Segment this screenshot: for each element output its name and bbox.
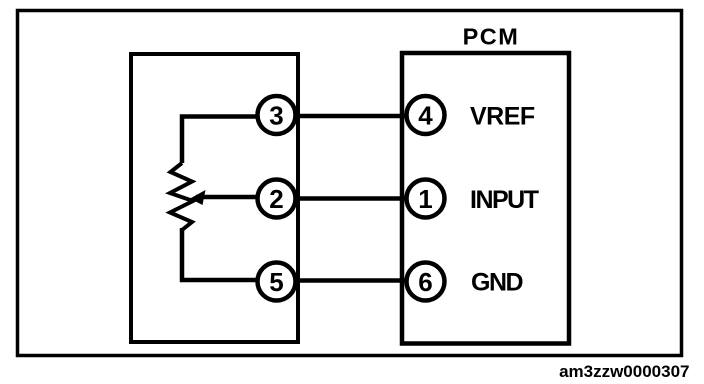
pin 4 [407, 96, 445, 134]
svg-text:6: 6 [418, 267, 432, 297]
svg-text:INPUT: INPUT [470, 186, 539, 214]
svg-text:PCM: PCM [463, 23, 520, 49]
wire VREF net (pin 3 to pin 4) [276, 114, 426, 119]
svg-text:5: 5 [269, 267, 283, 297]
svg-text:1: 1 [418, 184, 432, 214]
PCM box U1 [402, 53, 569, 344]
wire GND net (pin 5 to pin 6) [276, 278, 426, 283]
svg-text:2: 2 [269, 184, 283, 214]
pin 6 [407, 263, 445, 301]
wire INPUT net (pin 2 to pin 1) [276, 196, 426, 201]
svg-text:4: 4 [418, 100, 433, 130]
svg-text:VREF: VREF [470, 103, 535, 131]
wiper arrowhead [190, 190, 206, 205]
pin 1 [407, 180, 445, 218]
resistor R1 (potentiometer element) [170, 163, 193, 230]
svg-text:GND: GND [471, 269, 523, 297]
pin 2 [258, 180, 296, 218]
pin 5 [258, 263, 296, 301]
pin 3 [258, 96, 296, 134]
wire pin3 to resistor top [182, 117, 276, 164]
svg-text:3: 3 [269, 100, 283, 130]
sensor box (potentiometer enclosure) [131, 54, 298, 342]
svg-text:am3zzw0000307: am3zzw0000307 [559, 362, 689, 381]
wire resistor bottom to pin5 [182, 228, 276, 280]
wire wiper from pin2 [196, 195, 276, 200]
